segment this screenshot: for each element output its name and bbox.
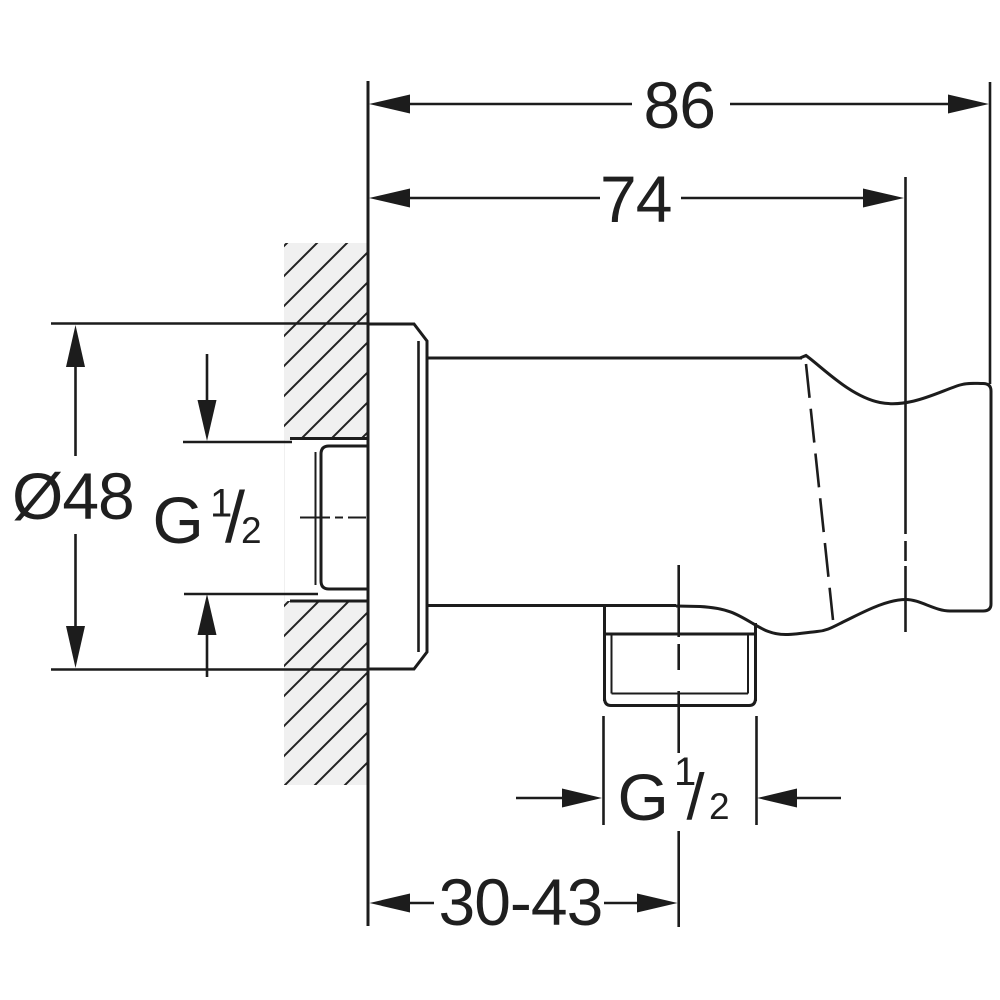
svg-text:2: 2	[241, 510, 262, 551]
svg-text:/: /	[687, 760, 706, 833]
svg-text:30-43: 30-43	[439, 865, 603, 939]
svg-text:Ø48: Ø48	[12, 459, 134, 533]
svg-text:G: G	[618, 760, 669, 834]
svg-text:86: 86	[644, 68, 715, 142]
svg-text:G: G	[153, 483, 204, 557]
svg-text:74: 74	[600, 162, 671, 236]
svg-text:2: 2	[709, 786, 730, 827]
